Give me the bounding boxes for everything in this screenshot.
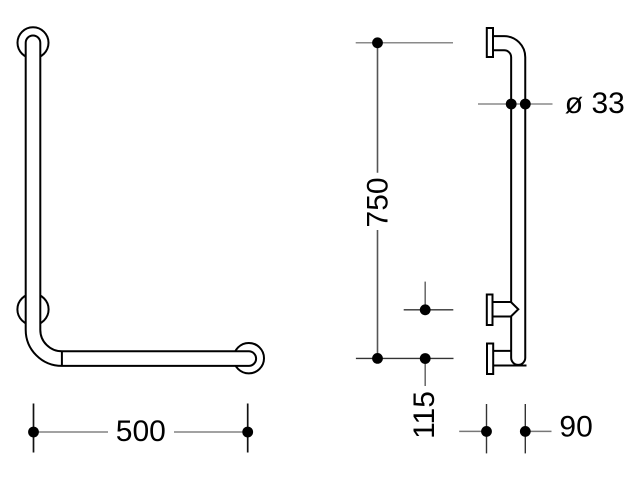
support bracket wall plate (side view, middle) xyxy=(487,295,493,326)
bottom bracket arm top line (side view) xyxy=(493,350,511,352)
wall flange right end (front view) xyxy=(234,343,264,373)
dimension 500 right extension tick xyxy=(247,404,249,453)
dimension 115 upper extension line xyxy=(404,309,454,311)
dimension 90 right stub line xyxy=(525,430,551,432)
dimension 500 line left segment xyxy=(34,431,109,433)
wall flange mid-left (front view) xyxy=(17,294,48,325)
wall flange top-left (front view) xyxy=(18,27,49,58)
dimension 750 line upper segment xyxy=(377,43,379,173)
dimension 750 bottom extension line (shared with 115) xyxy=(356,357,454,359)
dimension ø33 right dot xyxy=(520,99,531,110)
top wall plate (side view) xyxy=(487,28,493,57)
dimension 90 left dot xyxy=(481,426,492,437)
L-shaped grab bar tube (front view) xyxy=(26,36,256,366)
dimension ø33 left dot xyxy=(506,99,517,110)
svg-text:500: 500 xyxy=(116,415,166,448)
dimension 90 left stub line xyxy=(459,430,486,432)
dimension 90 right dot xyxy=(520,426,531,437)
dimension 500 left dot xyxy=(28,427,39,438)
dimension 90 right tick xyxy=(524,404,526,453)
dimension 750 bottom dot xyxy=(372,353,383,364)
bottom bracket wall plate (side view) xyxy=(487,344,493,375)
dimension 500 line right segment xyxy=(174,431,248,433)
dimension 750 top dot xyxy=(372,37,383,48)
dimension 500 left extension tick xyxy=(33,404,35,453)
dimension 750 top extension line xyxy=(356,42,453,44)
svg-text:90: 90 xyxy=(559,410,592,443)
dimension 500 right dot xyxy=(242,427,253,438)
dimension 90 left tick xyxy=(486,404,488,453)
svg-text:ø 33: ø 33 xyxy=(565,87,625,120)
weld seam line at bend tangent (front view) xyxy=(61,351,63,366)
svg-text:750: 750 xyxy=(362,177,395,227)
grab bar tube (side view) xyxy=(493,36,525,365)
dimension ø33 line xyxy=(478,103,553,105)
bottom bracket arm bottom line (side view) xyxy=(493,365,526,367)
dimension 115 lower leader xyxy=(424,359,426,387)
dimension 115 lower dot xyxy=(420,353,431,364)
dimension 750 line lower segment xyxy=(377,230,379,358)
support bracket arm with snap point (side view, middle) xyxy=(493,302,519,317)
dimension 115 upper tick xyxy=(424,282,426,310)
svg-text:115: 115 xyxy=(408,391,441,439)
dimension 115 upper dot xyxy=(420,304,431,315)
